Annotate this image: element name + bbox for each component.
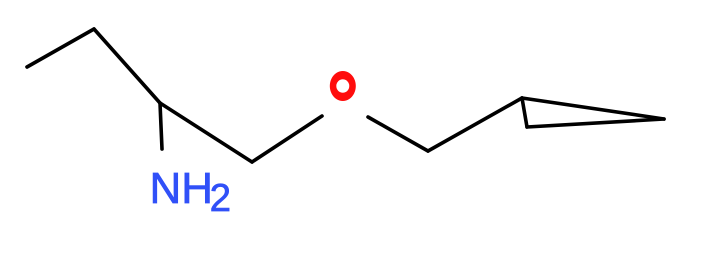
bond CH2 to O [252,116,322,162]
bond CH3 to apex [27,29,94,67]
bond C2 to N [160,103,162,149]
svg-text:NH2: NH2 [150,164,231,220]
bond apex to C2 [94,29,160,103]
bond peak to B [522,98,527,127]
bond C2 to CH2 [160,103,252,162]
bond O to valley [368,117,428,151]
bond group [27,29,664,162]
bond valley to peak [428,98,522,151]
bond peak to right apex [522,98,664,119]
atom label O [330,71,356,101]
bond B to right apex [527,119,664,127]
